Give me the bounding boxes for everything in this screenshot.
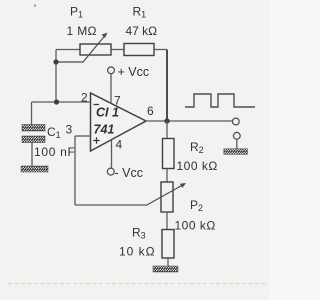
ground symbol (output) [224, 149, 248, 155]
ground symbol (C1) [21, 166, 48, 172]
wire: R3 to ground [167, 258, 169, 266]
potentiometer P1 wiper arrow [56, 33, 108, 63]
capacitor C1 top plate [22, 125, 45, 132]
node A junction dot (P1 left / wiper) [53, 59, 58, 64]
resistor R3 body [162, 230, 174, 259]
wire: R2 to P2 [166, 169, 168, 183]
svg-text:100 kΩ: 100 kΩ [175, 219, 216, 233]
svg-text:47 kΩ: 47 kΩ [126, 24, 158, 38]
wire: output pin 6 horizontal [146, 120, 232, 122]
svg-text:- Vcc: - Vcc [115, 166, 143, 180]
wire: pin 4 vertical to -Vcc [111, 140, 113, 168]
node B junction dot (pin 2 / C1 / feedback) [54, 99, 59, 104]
+Vcc terminal circle [108, 67, 115, 74]
svg-text:100 nF: 100 nF [34, 145, 76, 159]
svg-text:3: 3 [66, 123, 73, 137]
wire: top feedback left segment to P1 [56, 49, 80, 51]
wire: pin 3 vertical down [74, 136, 76, 205]
potentiometer P1 body [80, 44, 111, 55]
svg-text:10 kΩ: 10 kΩ [119, 245, 156, 259]
wire: P1 to R1 [111, 49, 124, 51]
wire: C1 top vertical [31, 102, 33, 125]
svg-text:CI 1: CI 1 [96, 106, 119, 120]
capacitor C1 bottom plate [22, 136, 45, 143]
potentiometer P2 body [161, 182, 173, 212]
svg-text:2: 2 [81, 91, 88, 105]
op-amp inverting input minus sign [94, 104, 100, 106]
ground symbol (R3) [153, 266, 178, 272]
wire: pin 3 to P2 wiper horizontal [75, 204, 146, 206]
scan border artifact bottom [8, 283, 266, 285]
output terminal (bottom) [233, 132, 240, 139]
-Vcc terminal circle [107, 168, 114, 175]
potentiometer P2 wiper arrow [146, 183, 186, 206]
wire: left vertical from top wire to pin 2 node [55, 50, 57, 103]
svg-text:7: 7 [114, 94, 121, 108]
svg-text:100 kΩ: 100 kΩ [177, 159, 218, 173]
wire: right feedback vertical down to output node [166, 50, 168, 122]
resistor R1 body [124, 44, 154, 56]
op-amp U1 (CI 1, 741) triangle [91, 93, 147, 151]
op-amp non-inverting input plus sign [93, 137, 99, 143]
output terminal (top) [232, 118, 239, 125]
svg-text:+ Vcc: + Vcc [118, 65, 150, 79]
wire: R1 right to feedback vertical [154, 49, 167, 51]
svg-text:4: 4 [116, 138, 123, 152]
wire: pin 2 horizontal [32, 101, 91, 103]
wire: C1 bottom to ground [31, 143, 33, 167]
svg-text:741: 741 [94, 123, 115, 137]
scan speck top-left [34, 4, 37, 7]
square wave symbol [185, 94, 255, 107]
wire: P2 to R3 [166, 212, 168, 230]
svg-text:1 MΩ: 1 MΩ [67, 24, 97, 38]
svg-text:6: 6 [147, 104, 154, 118]
wire: bottom terminal to ground [236, 139, 238, 149]
output node junction dot [164, 118, 169, 123]
wire: pin 7 vertical to +Vcc [110, 74, 112, 104]
wire: output node down to R2 [166, 121, 168, 139]
resistor R2 body [163, 139, 175, 169]
wire: pin 3 horizontal stub [75, 135, 91, 137]
